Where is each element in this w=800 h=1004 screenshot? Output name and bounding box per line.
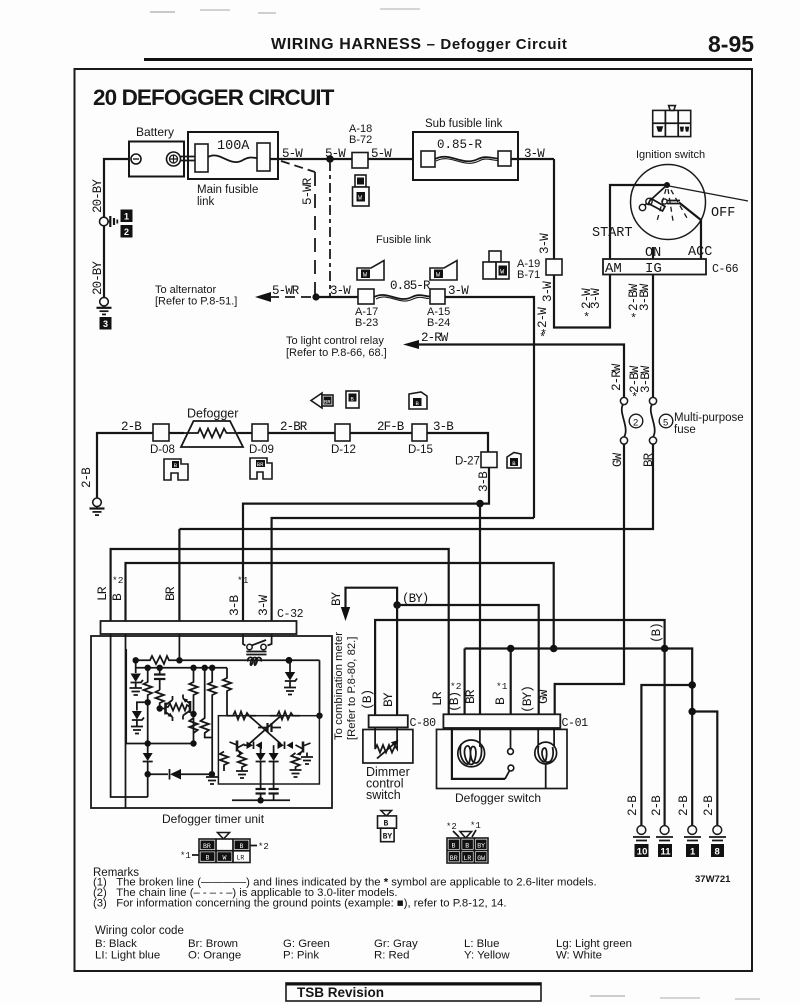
svg-text:3: 3 xyxy=(103,319,108,329)
svg-text:0.85-R: 0.85-R xyxy=(390,279,431,293)
diode DV2 xyxy=(269,745,279,787)
svg-text:3-W: 3-W xyxy=(256,595,271,616)
wire pivot to START / AM xyxy=(610,185,667,259)
ground gQ1 area xyxy=(206,774,218,784)
resistor RD xyxy=(238,753,246,771)
main fusible link left element xyxy=(195,144,208,172)
svg-text:W: W xyxy=(358,195,362,202)
junction node 5-WR/3-W xyxy=(312,293,319,300)
sub link right element xyxy=(498,151,511,166)
svg-text:3-W: 3-W xyxy=(589,288,603,309)
svg-text:5-WR: 5-WR xyxy=(301,177,315,205)
wire D-09 to D-12 xyxy=(268,432,335,434)
svg-text:3-W: 3-W xyxy=(524,147,545,161)
svg-text:W: W xyxy=(223,855,227,862)
svg-text:*1: *1 xyxy=(180,851,191,861)
svg-text:2-B: 2-B xyxy=(702,795,716,816)
rail1 node dot xyxy=(286,657,293,664)
rheostat xyxy=(375,745,397,753)
3-B drop to C-01 BR pin xyxy=(479,504,481,715)
svg-text:2-B: 2-B xyxy=(677,795,691,816)
svg-text:2-W: 2-W xyxy=(536,307,550,328)
junction node B*1 xyxy=(507,645,515,653)
svg-text:LR: LR xyxy=(237,855,245,862)
transistor Q4 xyxy=(296,742,311,756)
svg-text:5-W: 5-W xyxy=(282,147,303,161)
svg-text:BY: BY xyxy=(383,833,393,842)
ground bus line 648 xyxy=(465,649,693,828)
flipflop resistor RB xyxy=(270,712,300,720)
arrow to light control relay xyxy=(403,340,419,349)
wire from minus terminal to left xyxy=(104,159,129,217)
ground 10 wire xyxy=(641,685,692,827)
sub link wavy wire xyxy=(435,157,498,162)
flipflop capacitor C2 xyxy=(258,723,281,732)
svg-text:To alternator: To alternator xyxy=(155,284,216,296)
svg-text:BR: BR xyxy=(324,399,331,406)
svg-text:B: Black: B: Black xyxy=(95,938,137,950)
diode pair left xyxy=(244,742,262,750)
svg-text:2-B: 2-B xyxy=(626,795,640,816)
B*1 drop to C-01 xyxy=(510,649,512,715)
ground symbol 1 xyxy=(684,826,701,841)
diode D1 down xyxy=(143,753,153,774)
svg-text:2-BR: 2-BR xyxy=(280,420,308,434)
svg-text:B: B xyxy=(206,855,210,862)
ground gRD xyxy=(236,771,248,778)
flag icon BR arrow left xyxy=(311,393,333,408)
svg-text:B: B xyxy=(384,820,389,829)
junction node g10 xyxy=(688,681,696,689)
vertical 3-W wire to A-19 and C-66 AM xyxy=(553,159,555,259)
A-18 pin view icon xyxy=(353,175,370,206)
to alternator arrow xyxy=(255,292,271,302)
svg-text:Lg: Light green: Lg: Light green xyxy=(556,938,632,950)
svg-text:L: Blue: L: Blue xyxy=(464,938,499,950)
connector D-12 xyxy=(335,424,350,441)
C-66 connector box xyxy=(603,259,706,275)
zener Z2 branch xyxy=(131,702,148,733)
sub link left element xyxy=(421,151,435,167)
svg-text:2-B: 2-B xyxy=(80,467,94,488)
fusible link double box icon xyxy=(483,251,509,279)
svg-text:Br: Brown: Br: Brown xyxy=(188,938,238,950)
ground number 1 xyxy=(686,844,699,857)
svg-text:B-71: B-71 xyxy=(517,269,540,281)
svg-text:LR: LR xyxy=(95,586,110,601)
thick arm to ACC wire xyxy=(679,203,701,260)
svg-text:3-W: 3-W xyxy=(330,284,351,298)
main border frame xyxy=(75,69,753,971)
LR column inside timer xyxy=(111,634,148,797)
svg-text:*: * xyxy=(630,312,637,326)
rail1 zener drop xyxy=(289,660,291,672)
BR column inside timer xyxy=(178,634,180,660)
svg-text:8-95: 8-95 xyxy=(708,31,754,57)
L-shape icon BR xyxy=(250,458,272,479)
fusible link flag icon W left xyxy=(357,261,384,281)
junction node g8 xyxy=(688,708,696,716)
svg-text:W: White: W: White xyxy=(556,950,602,962)
connector D-15 xyxy=(412,424,427,441)
switch contact xyxy=(505,728,514,779)
svg-text:Wiring color code: Wiring color code xyxy=(95,925,184,937)
svg-text:1: 1 xyxy=(690,847,696,858)
connector D-08 xyxy=(153,424,169,441)
svg-text:3-B: 3-B xyxy=(477,471,491,492)
svg-text:BR: BR xyxy=(450,855,458,862)
svg-text:11: 11 xyxy=(661,847,672,858)
svg-text:Defogger: Defogger xyxy=(187,407,238,421)
small box icon B xyxy=(346,391,359,408)
svg-text:WIRING HARNESS – Defogger C: WIRING HARNESS – Defogger Circuit xyxy=(271,36,568,53)
diode pair right xyxy=(278,742,294,750)
svg-text:C-32: C-32 xyxy=(277,608,304,621)
5-WR vertical broken line xyxy=(314,172,316,297)
connector D-09 xyxy=(252,424,268,441)
resistor R8 column xyxy=(189,718,197,733)
svg-text:G: Green: G: Green xyxy=(283,938,330,950)
wire A-15 to corner, down xyxy=(445,297,534,518)
svg-text:2: 2 xyxy=(124,227,129,237)
ground 11 wire xyxy=(663,649,665,828)
(BY) bus line xyxy=(397,605,539,715)
transistor Q1 xyxy=(157,696,173,721)
C-80 connector bar xyxy=(369,715,408,727)
capacitor C3 xyxy=(256,787,266,800)
switch arm to start contact xyxy=(644,185,667,206)
svg-text:Ignition switch: Ignition switch xyxy=(636,149,705,161)
svg-text:D-08: D-08 xyxy=(150,444,175,456)
Q1 column down xyxy=(147,702,149,753)
svg-text:Y: Yellow: Y: Yellow xyxy=(464,950,510,962)
battery box xyxy=(129,142,184,177)
wire defogger element to D-09 xyxy=(238,432,252,434)
relay rail to flipflop xyxy=(319,660,321,715)
timer rail 2 xyxy=(136,660,227,668)
ground symbol 11 xyxy=(656,826,673,841)
C-01 connector bar xyxy=(443,714,560,728)
wire node to A-17 xyxy=(316,296,358,298)
defogger switch pin grid xyxy=(446,821,488,863)
svg-text:D-09: D-09 xyxy=(249,444,274,456)
fusible wavy wire xyxy=(208,155,257,162)
battery plus terminal xyxy=(167,152,181,166)
ground defogger left xyxy=(90,498,105,515)
svg-text:GW: GW xyxy=(536,689,551,704)
svg-text:link: link xyxy=(197,196,215,208)
svg-text:Main fusible: Main fusible xyxy=(197,184,258,196)
junction node 3-B xyxy=(476,500,484,508)
LR bus line xyxy=(111,549,449,715)
svg-text:100A: 100A xyxy=(217,139,250,154)
svg-text:W: W xyxy=(363,272,367,279)
BY branch to combination meter xyxy=(346,588,398,612)
main fusible link box xyxy=(188,132,278,179)
cross coupling wires xyxy=(249,716,281,744)
resistor RC xyxy=(220,752,228,772)
ground point square 1 xyxy=(121,210,133,223)
svg-text:10: 10 xyxy=(637,847,648,858)
ground number 8 xyxy=(711,844,724,857)
svg-text:AM: AM xyxy=(605,261,622,277)
svg-text:TSB Revision: TSB Revision xyxy=(297,985,384,1000)
svg-text:0.85-R: 0.85-R xyxy=(437,138,483,152)
ignition switch circle xyxy=(631,165,706,240)
svg-text:*: * xyxy=(540,328,547,342)
svg-text:8: 8 xyxy=(715,847,720,858)
wire D-15 to corner down to D-27 xyxy=(427,433,488,452)
svg-text:D-27: D-27 xyxy=(455,456,480,468)
svg-text:[Refer to P.8-66, 68.]: [Refer to P.8-66, 68.] xyxy=(286,347,387,359)
svg-text:Sub fusible link: Sub fusible link xyxy=(425,118,503,130)
B *2 bus line xyxy=(126,563,554,649)
svg-text:B: B xyxy=(240,843,244,850)
relay coil xyxy=(248,657,261,665)
svg-text:*: * xyxy=(631,391,638,405)
svg-text:3-BW: 3-BW xyxy=(639,365,653,393)
svg-text:(B): (B) xyxy=(650,623,664,643)
fuse 2 xyxy=(620,397,627,404)
svg-text:BR: BR xyxy=(642,452,656,467)
svg-text:3-W: 3-W xyxy=(538,233,552,254)
ground point square 3 xyxy=(100,317,112,330)
lamp right xyxy=(535,728,557,789)
3-B bus line to C-32 xyxy=(243,504,480,621)
svg-text:5-W: 5-W xyxy=(371,147,392,161)
svg-text:20 DEFOGGER CIRCUIT: 20 DEFOGGER CIRCUIT xyxy=(93,85,335,110)
resistor R3 xyxy=(156,690,164,709)
column R6b xyxy=(223,668,231,716)
svg-text:W: W xyxy=(500,269,504,276)
svg-text:BR: BR xyxy=(257,461,264,468)
svg-text:W: W xyxy=(436,272,440,279)
resistor RE xyxy=(291,753,299,770)
svg-text:O: Orange: O: Orange xyxy=(188,950,241,962)
svg-text:*: * xyxy=(583,311,590,325)
svg-text:*1: *1 xyxy=(470,821,481,831)
svg-text:To light control relay: To light control relay xyxy=(286,335,384,347)
wire A-18 to sub fusible link xyxy=(368,158,413,160)
svg-text:BR: BR xyxy=(163,586,178,601)
dimmer pin icon B/BY xyxy=(378,811,397,842)
capacitor C4 xyxy=(269,787,279,800)
svg-text:(3) For information concerni: (3) For information concerning the groun… xyxy=(93,898,507,910)
resistor R5 column xyxy=(201,668,213,738)
junction node ground11 xyxy=(661,645,669,653)
BR wire from fuse 5 xyxy=(179,444,653,529)
timer bottom bus xyxy=(232,797,290,803)
connector A-19 box xyxy=(546,259,562,275)
svg-text:GW: GW xyxy=(477,855,485,862)
svg-text:2: 2 xyxy=(633,418,638,429)
dimmer box xyxy=(363,730,413,764)
svg-text:fuse: fuse xyxy=(674,424,696,436)
resistor R2 vertical xyxy=(144,668,152,703)
GW wire from fuse 2 xyxy=(555,444,624,714)
node Q2 collector xyxy=(190,711,196,717)
svg-text:D-15: D-15 xyxy=(408,444,433,456)
svg-text:20-BY: 20-BY xyxy=(91,179,105,213)
svg-text:LI: Light blue: LI: Light blue xyxy=(95,950,160,962)
connector A-15 box xyxy=(430,289,445,304)
sub fusible link box xyxy=(413,132,518,180)
diode bus 774 xyxy=(145,769,216,780)
svg-text:*2: *2 xyxy=(450,681,462,692)
switch pivot xyxy=(664,182,670,188)
svg-text:B-72: B-72 xyxy=(349,134,372,146)
timer unit pin grid xyxy=(180,833,269,863)
svg-text:[Refer to P.8-51.]: [Refer to P.8-51.] xyxy=(155,296,237,308)
timer rail 1 xyxy=(136,656,320,664)
svg-text:*1: *1 xyxy=(496,681,508,692)
rail2 node dots xyxy=(176,657,182,663)
L-shape icon B xyxy=(164,459,188,480)
dashed throw positions xyxy=(657,189,666,221)
ground number 11 xyxy=(658,844,672,857)
(B)*2 drop to C-01 xyxy=(464,649,466,715)
svg-text:(B): (B) xyxy=(447,692,462,712)
svg-text:(BY): (BY) xyxy=(402,592,428,606)
svg-text:3-W: 3-W xyxy=(541,281,555,302)
svg-text:Battery: Battery xyxy=(136,125,174,139)
svg-text:5-WR: 5-WR xyxy=(272,284,300,298)
wire between grounds xyxy=(103,226,105,298)
svg-text:*2: *2 xyxy=(258,842,269,852)
B column inside timer xyxy=(125,634,127,808)
ground symbol 10 xyxy=(633,826,650,841)
svg-text:2-B: 2-B xyxy=(121,420,142,434)
svg-text:BY: BY xyxy=(330,591,344,606)
svg-text:D-12: D-12 xyxy=(331,444,356,456)
lamp left xyxy=(452,728,505,779)
IG wire down xyxy=(652,275,654,399)
svg-text:Fusible link: Fusible link xyxy=(376,234,432,246)
ground number 10 xyxy=(635,844,649,857)
ground gRE xyxy=(290,770,302,777)
circled 2 xyxy=(629,414,643,428)
svg-text:1: 1 xyxy=(124,212,129,222)
svg-text:GW: GW xyxy=(611,452,625,467)
svg-text:Multi-purpose: Multi-purpose xyxy=(674,412,744,424)
BR column to C-32 xyxy=(178,529,180,621)
zener Z3 right xyxy=(284,672,297,695)
svg-text:P: Pink: P: Pink xyxy=(283,950,319,962)
C-32 connector bar xyxy=(101,621,297,634)
switch key bar xyxy=(646,198,652,204)
svg-text:R: Red: R: Red xyxy=(374,950,409,962)
svg-text:B: B xyxy=(465,843,469,850)
svg-text:B-23: B-23 xyxy=(355,317,378,329)
junction node BY xyxy=(393,601,401,609)
header rule xyxy=(144,58,752,61)
svg-text:*1: *1 xyxy=(237,575,249,586)
svg-text:BY: BY xyxy=(381,692,396,707)
svg-text:Defogger switch: Defogger switch xyxy=(455,791,541,805)
connector D-27 xyxy=(481,452,497,468)
svg-text:2-RW: 2-RW xyxy=(421,331,449,345)
left 2-B wire and ground xyxy=(97,433,153,498)
svg-text:LR: LR xyxy=(464,855,472,862)
svg-text:3-BW: 3-BW xyxy=(638,283,652,311)
resistor R7 horizontal xyxy=(166,704,191,711)
ground point square 2 xyxy=(121,225,133,238)
defogger element trapezoid with resistor xyxy=(181,421,243,447)
switch bar contact xyxy=(662,199,667,204)
svg-text:BR: BR xyxy=(463,689,478,704)
TSB Revision box xyxy=(286,983,541,1001)
wire D-12 to D-15 xyxy=(350,432,412,434)
flag icon B right xyxy=(507,453,521,469)
svg-text:3-B: 3-B xyxy=(433,420,454,434)
relay contact xyxy=(243,634,272,655)
svg-text:B: B xyxy=(452,843,456,850)
resistor R4 column xyxy=(189,668,197,744)
timer unit outer box xyxy=(91,636,332,808)
wire D-08 to defogger element xyxy=(169,432,184,434)
2-RW wire xyxy=(417,345,624,399)
svg-text:switch: switch xyxy=(366,788,401,802)
svg-text:*2: *2 xyxy=(112,575,124,586)
connector A-17 box xyxy=(358,289,374,304)
wire main link to junction xyxy=(270,158,353,160)
capacitor C1 column xyxy=(154,668,165,690)
ground 8 wire xyxy=(692,712,717,828)
ON stub wire xyxy=(652,247,654,259)
main fusible link right element xyxy=(257,143,270,171)
svg-text:*2: *2 xyxy=(446,822,457,832)
svg-text:OFF: OFF xyxy=(711,206,735,221)
svg-text:2-B: 2-B xyxy=(650,795,664,816)
flip-flop box xyxy=(218,716,319,784)
svg-text:To combination meter: To combination meter xyxy=(333,632,345,740)
faint scan marks top xyxy=(150,11,175,13)
transistor Q2 mirrored xyxy=(183,695,190,720)
combination meter arrowhead xyxy=(341,607,350,621)
svg-text:Gr: Gray: Gr: Gray xyxy=(374,938,418,950)
junction node xyxy=(326,155,334,163)
svg-text:C-66: C-66 xyxy=(712,263,739,276)
svg-text:LR: LR xyxy=(430,691,445,706)
svg-text:C-80: C-80 xyxy=(410,717,437,730)
svg-text:BR: BR xyxy=(203,843,211,850)
svg-text:2F-B: 2F-B xyxy=(377,420,405,434)
svg-text:2-RW: 2-RW xyxy=(610,363,624,391)
svg-text:5: 5 xyxy=(663,418,668,429)
svg-text:BY: BY xyxy=(477,843,485,850)
zener Z1 xyxy=(130,668,144,695)
faint scan marks bottom right xyxy=(590,995,625,997)
flipflop resistor RA xyxy=(227,712,256,720)
svg-text:ACC: ACC xyxy=(688,245,712,260)
circled 5 xyxy=(659,414,673,428)
svg-text:Defogger timer unit: Defogger timer unit xyxy=(162,812,265,826)
svg-text:20-BY: 20-BY xyxy=(91,261,105,295)
transistor Q3 xyxy=(230,741,245,755)
3-W bus line to C-32 xyxy=(272,518,534,621)
flag box icon B xyxy=(409,392,427,409)
chain line from 5-W junction xyxy=(329,161,331,297)
svg-text:(BY): (BY) xyxy=(520,686,535,713)
diode DV1 xyxy=(256,745,266,787)
svg-text:3-B: 3-B xyxy=(227,595,242,616)
svg-text:[Refer to P.8-80, 82.]: [Refer to P.8-80, 82.] xyxy=(346,637,358,740)
ignition connector icon xyxy=(653,106,691,137)
node Q1 base branch xyxy=(145,699,151,705)
fuse 5 xyxy=(649,397,656,404)
wire sub link to corner xyxy=(511,158,554,160)
long pointer line xyxy=(669,186,748,201)
